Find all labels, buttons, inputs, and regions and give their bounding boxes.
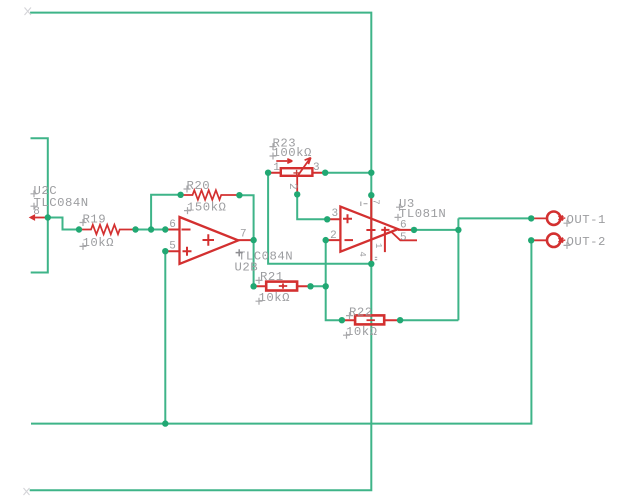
connector pad OUT-2 [531,234,565,247]
wire U2C pin8 to R19 [48,218,79,230]
origin cross U3 label [396,204,403,211]
junction U2B pin6 [162,226,168,232]
text origin crosses [31,143,571,339]
wire U2B pin5 down [164,251,166,423]
junction U3 pin2 [323,237,329,243]
origin cross 10k value (R21) [256,298,263,305]
junction R23 net / vertical bus [368,170,374,176]
tiny pin marks U3 pin7 V+ [361,202,368,207]
origin cross R23 label [270,143,277,150]
junction R21 left [250,283,256,289]
svg-text:OUT-2: OUT-2 [567,235,606,249]
wire R23 pin3 to vertical net [325,172,371,174]
svg-text:2: 2 [286,183,298,190]
junction OUT-2 pin [528,237,534,243]
svg-text:6: 6 [169,219,176,231]
svg-text:7: 7 [370,199,380,205]
origin cross R19 label [80,219,87,226]
star mark before TLC084N (U2B) [236,249,243,256]
junction U3 pin4 V- [368,261,374,267]
junction U3 pin7 V+ [368,192,374,198]
wire U3 output to OUT-1 and R22 right [400,218,531,320]
faint X mark top-left [25,8,32,16]
svg-text:R21: R21 [260,270,284,284]
svg-text:5: 5 [400,232,407,244]
svg-text:4: 4 [357,251,367,257]
svg-text:R20: R20 [187,179,211,193]
origin cross 10k value (R19) [80,243,87,250]
op-amp U2C pin 8 stub [30,215,48,220]
junction output node [455,227,461,233]
wire R19 right to U2B pin6 [136,229,166,231]
connector pad OUT-1 [531,212,565,225]
junction R19 left [76,226,82,232]
op-amp U2B [165,217,253,264]
junction R23 pin1 [265,170,271,176]
junction R20 right [236,192,242,198]
wire R23 wiper to U3 pin3 [297,194,327,219]
junction R20 left [177,192,183,198]
resistor R21 [254,282,311,291]
wire left bracket net [31,138,48,272]
svg-text:TLC084N: TLC084N [34,196,89,210]
resistor R20 [182,190,238,200]
faint corner X marks [24,8,32,496]
svg-text:10kΩ: 10kΩ [259,291,291,305]
origin cross 10k value (R22) [343,332,350,339]
junction R23 pin3 [322,170,328,176]
wire branch up to R20 left [151,195,181,230]
origin cross TLC084N label (U2C) [31,203,38,210]
svg-text:2: 2 [330,230,337,242]
junction pin5 net / bottom wire [162,420,168,426]
origin cross OUT-2 label [564,242,571,249]
junction OUT-1 pin [528,215,534,221]
svg-text:150kΩ: 150kΩ [187,200,227,214]
svg-text:U2B: U2B [235,260,259,274]
potentiometer R23 [268,158,325,195]
wire big loop net top/right/bottom [30,13,372,491]
svg-text:100kΩ: 100kΩ [273,146,313,160]
junction R21 right [307,283,313,289]
origin cross R21 label [256,277,263,284]
junction R22 right [397,317,403,323]
tiny pin marks U3 pin4 V- [375,257,377,259]
junction U2B output node [250,237,256,243]
junction U3 pin3 [324,216,330,222]
wire R20 right down to U2B out and R21 left [239,195,253,286]
resistor R19 [80,225,133,235]
svg-text:3: 3 [332,208,339,220]
origin cross R20 label [184,186,191,193]
origin cross 150k value (R20) [184,207,191,214]
origin cross R22 label [346,312,353,319]
junction U2C pin8 / net [45,214,51,220]
origin cross OUT-1 label [564,220,571,227]
svg-text:6: 6 [400,219,407,231]
svg-text:10kΩ: 10kΩ [83,236,115,250]
junction U3 output pin6 [411,227,417,233]
origin cross U2C label [31,190,38,197]
svg-text:R22: R22 [349,305,373,319]
svg-text:OUT-1: OUT-1 [567,213,606,227]
svg-text:1: 1 [373,243,383,249]
svg-text:1: 1 [273,162,280,174]
resistor R22 [342,315,400,324]
svg-text:10kΩ: 10kΩ [346,325,378,339]
wire R23 pin1 down to U3 pin4 node [268,173,371,264]
junction R23 wiper [294,191,300,197]
svg-text:5: 5 [169,241,176,253]
junction R20 branch [148,226,154,232]
junction R22 left [339,317,345,323]
wire bottom horizontal to OUT-2 [31,240,531,423]
faint X mark bottom-left [24,488,30,495]
svg-text:R19: R19 [83,212,107,226]
junction U2B pin5 [162,248,168,254]
origin cross 100k value (R23) [270,153,277,160]
wire R21 right to U3 pin2 and down to R22 [311,240,342,320]
origin cross TL081N label [395,214,402,221]
op-amp U3 [326,195,417,264]
junction R21/R22 branch node [323,283,329,289]
junction R19 right [132,226,138,232]
svg-text:7: 7 [240,229,247,241]
svg-text:3: 3 [313,162,320,174]
